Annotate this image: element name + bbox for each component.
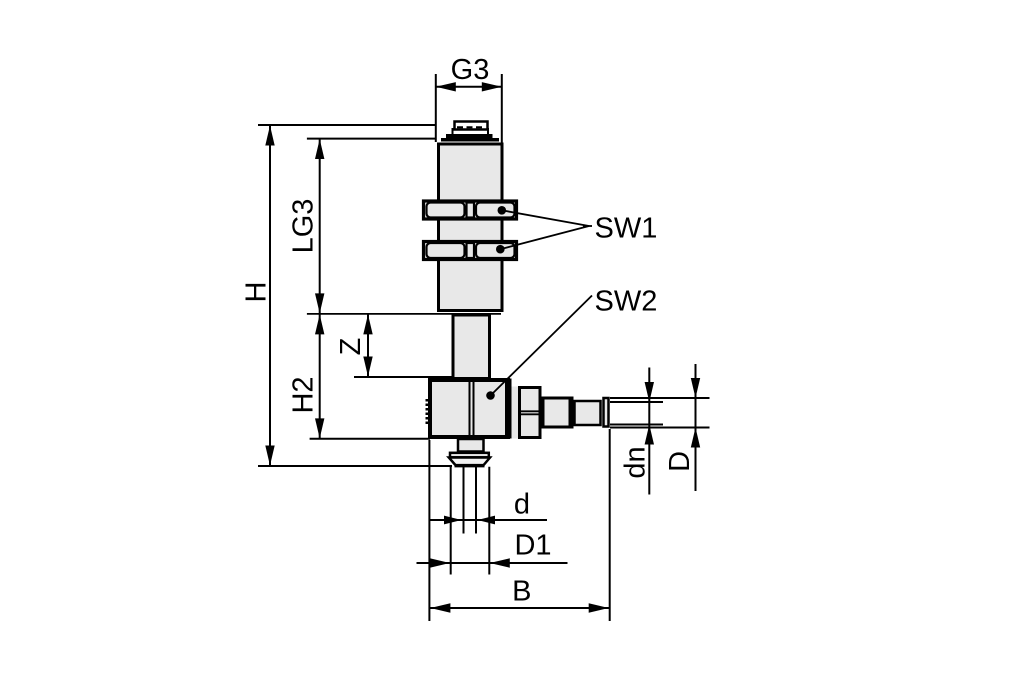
D extension line top — [610, 397, 710, 399]
H2 arrow bottom — [315, 418, 324, 438]
dn dimension line — [648, 368, 650, 495]
H2 arrow top — [315, 314, 324, 334]
SW1 leader line upper — [502, 210, 589, 226]
nut SW1 upper: leader dot — [498, 206, 507, 215]
H2 extension line bottom — [310, 438, 430, 440]
barb end ring — [604, 398, 609, 427]
B arrow right — [589, 603, 609, 612]
hex SW2 double line — [521, 410, 540, 412]
nut SW1 upper: middle facet — [467, 203, 475, 218]
H extension line bottom — [258, 465, 452, 467]
nut SW1 upper: outer — [424, 201, 517, 219]
D arrow top — [691, 378, 700, 398]
nut SW1 lower: outer — [424, 242, 517, 260]
cylinder bottom extension line — [307, 313, 501, 315]
d arrow right — [478, 516, 496, 525]
d dimension line — [430, 519, 548, 521]
D arrow bottom — [691, 428, 700, 448]
dn arrow top — [645, 382, 654, 402]
svg-text:G3: G3 — [451, 54, 490, 86]
nut SW1 upper: left facet — [427, 203, 465, 218]
LG3 arrow top — [315, 139, 324, 159]
H arrow top — [265, 126, 274, 146]
upper cylinder body — [439, 144, 503, 311]
G3 arrow left — [436, 82, 456, 91]
collar right of body — [512, 387, 519, 439]
B dimension line — [430, 607, 609, 609]
top cap tier2 (white collar) — [453, 129, 489, 136]
B extension line left — [428, 440, 430, 621]
svg-text:SW1: SW1 — [595, 213, 658, 245]
dn extension line bottom — [610, 424, 663, 426]
svg-text:d: d — [514, 489, 530, 521]
nut SW1 upper: right facet — [476, 203, 515, 218]
d arrow left — [444, 516, 462, 525]
D1 arrow left — [430, 558, 450, 567]
svg-text:LG3: LG3 — [288, 199, 320, 254]
barb A right dark edge — [569, 397, 574, 429]
LG3 arrow bottom — [315, 293, 324, 313]
top cap tier3 (black band) — [446, 134, 493, 139]
body left threaded hatch — [425, 399, 428, 426]
hex SW2 section — [520, 388, 541, 438]
G3 extension line right — [501, 74, 503, 143]
B arrow left — [430, 603, 450, 612]
SW2 leader dot — [486, 391, 495, 400]
svg-text:Z: Z — [335, 338, 367, 356]
D1 dimension line — [417, 562, 568, 564]
bottom flange trapezoid — [449, 458, 490, 466]
bottom stem — [458, 439, 484, 452]
G3 dimension line — [436, 86, 502, 88]
H extension line top — [258, 124, 437, 126]
body right dark band — [505, 379, 512, 439]
Z dimension line — [367, 314, 369, 377]
H dimension line — [269, 125, 271, 466]
svg-text:D1: D1 — [514, 530, 551, 562]
G3 extension line left — [435, 74, 437, 142]
main elbow body — [430, 380, 508, 437]
svg-text:dn: dn — [620, 446, 652, 478]
SW2 leader line — [491, 296, 593, 396]
nut SW1 lower: left facet — [427, 243, 465, 258]
barb segment B — [575, 401, 601, 425]
tube outer line right — [488, 467, 490, 575]
stem between cylinder and body — [453, 315, 490, 379]
svg-text:B: B — [512, 576, 531, 608]
top cap tier1 (knurled top) — [455, 122, 488, 130]
H2 dimension line — [319, 314, 321, 439]
svg-text:SW2: SW2 — [595, 286, 658, 318]
nut SW1 lower: leader dot — [496, 245, 505, 254]
tube outer line left — [450, 467, 452, 575]
body interior double line — [469, 382, 471, 436]
top cap tier4 (black base band) — [441, 138, 499, 142]
nut SW1 lower: middle facet — [467, 243, 475, 258]
D extension line bottom — [610, 427, 710, 429]
G3 arrow right — [482, 82, 502, 91]
tube inner line right — [475, 467, 477, 534]
D1 arrow right — [490, 558, 510, 567]
B extension line right — [609, 429, 611, 621]
SW1 leader tick — [583, 225, 592, 227]
LG3 extension line top — [307, 138, 437, 140]
D dimension line — [695, 364, 697, 491]
Z arrow top — [363, 314, 372, 334]
Z extension line bottom — [354, 376, 452, 378]
svg-text:H: H — [241, 282, 273, 303]
Z arrow bottom — [363, 357, 372, 377]
nut SW1 lower: right facet — [476, 243, 515, 258]
bottom flange band — [450, 453, 489, 458]
tube inner line left — [463, 467, 465, 534]
dn arrow bottom — [645, 425, 654, 445]
flange bottom thick edge — [455, 464, 485, 468]
svg-text:D: D — [664, 451, 696, 472]
svg-text:H2: H2 — [288, 376, 320, 413]
SW1 leader line lower — [500, 226, 589, 249]
barb segment A — [543, 398, 570, 427]
LG3 dimension line — [319, 139, 321, 314]
H arrow bottom — [265, 446, 274, 466]
dn extension line top — [610, 401, 663, 403]
